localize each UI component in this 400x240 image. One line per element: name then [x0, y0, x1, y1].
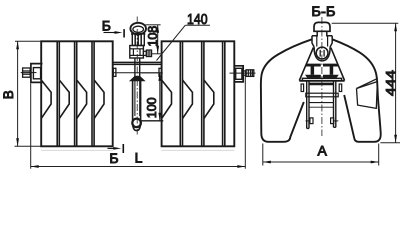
bottom band [299, 78, 344, 81]
clamp leg right section [334, 81, 336, 128]
tie bar upper [113, 62, 162, 64]
section marker B top [104, 29, 125, 37]
crossbar thin lower [309, 103, 334, 108]
svg-text:Б: Б [102, 18, 111, 34]
I-beam section right [323, 64, 339, 78]
plate divider lines left block [57, 41, 94, 146]
crossbar upper [309, 83, 334, 84]
crossbar band middle [306, 93, 338, 97]
dimension 108 [145, 25, 160, 54]
tie rod collar flare [130, 76, 144, 80]
bolt cap section [314, 22, 330, 31]
tie rod nut [130, 46, 144, 59]
spacer block right of gap [159, 68, 162, 76]
svg-text:444: 444 [383, 70, 398, 96]
wedge slant left [299, 48, 313, 81]
clevis block [312, 36, 332, 48]
dimension A [263, 144, 379, 166]
dimension 100 [141, 73, 163, 121]
svg-text:Б-Б: Б-Б [311, 3, 335, 19]
tie rod shank [135, 58, 140, 76]
svg-text:100: 100 [145, 97, 159, 118]
svg-text:108: 108 [146, 26, 160, 47]
tie rod flat bar [133, 81, 141, 131]
section marker B bottom [108, 144, 124, 153]
upper bolt left [301, 84, 304, 92]
I-beam section left [305, 64, 321, 78]
bolt neck [312, 31, 332, 35]
spacer block left of gap [113, 68, 116, 76]
pin line at eye [140, 120, 164, 122]
scan ghost line under right block [162, 149, 235, 151]
bolt right [230, 70, 256, 77]
tie rod eye [132, 119, 141, 128]
tie bar lower [113, 72, 162, 74]
svg-text:L: L [135, 150, 143, 166]
nut side bolt [143, 50, 151, 57]
lower bolt right [331, 118, 339, 124]
chevron marks left block [41, 80, 104, 119]
clamp bracket right [234, 66, 243, 82]
dimension L [31, 70, 246, 169]
coupler body outline right [332, 39, 381, 142]
plate divider lines right block [180, 41, 225, 146]
label 140 with leader [157, 25, 211, 60]
chevron marks right block [162, 80, 214, 119]
tie rod head cap [130, 23, 146, 35]
lower bolt left [306, 118, 314, 124]
upper bolt right [339, 84, 342, 92]
svg-text:В: В [1, 90, 16, 99]
svg-text:140: 140 [187, 12, 208, 28]
leaf plate block right outline [162, 41, 235, 146]
tie rod neck [132, 34, 144, 46]
dimension B [15, 41, 42, 146]
dimension 444 [332, 23, 400, 143]
center line tie rod [136, 17, 138, 135]
clamp bracket left [31, 64, 43, 83]
wedge slant right [331, 48, 345, 81]
center line section view [321, 17, 323, 136]
clamp leg left section [307, 81, 309, 129]
bolt left [21, 68, 37, 77]
lock slot notch [357, 79, 378, 109]
svg-text:Б: Б [109, 150, 118, 166]
bulb around ball [314, 47, 330, 61]
ball pivot [316, 47, 328, 59]
coupler body outline left [261, 39, 312, 142]
svg-text:А: А [318, 143, 328, 159]
scan ghost line under left block [41, 149, 113, 151]
leaf plate block left outline [41, 41, 113, 146]
